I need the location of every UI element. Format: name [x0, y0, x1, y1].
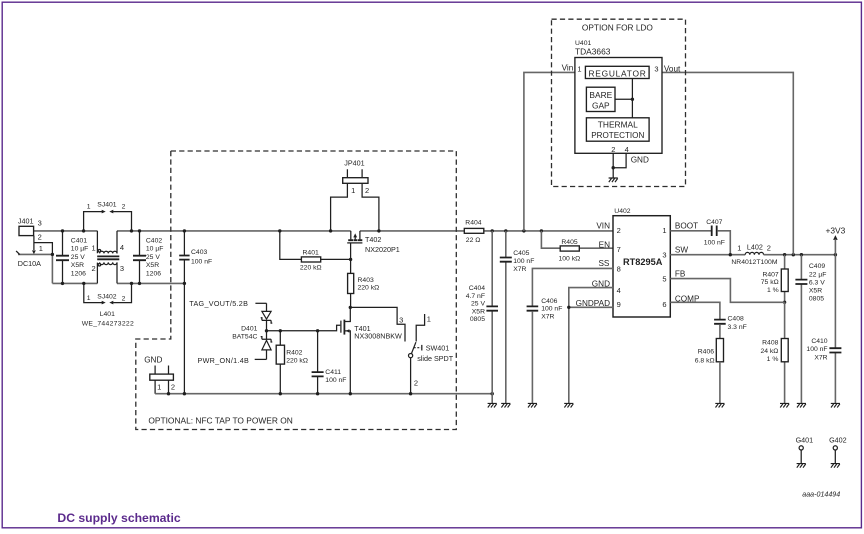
- svg-text:C402: C402: [146, 237, 162, 244]
- svg-text:0805: 0805: [470, 316, 485, 323]
- svg-text:3.3 nF: 3.3 nF: [728, 324, 747, 331]
- svg-text:GND: GND: [631, 155, 649, 164]
- ground G401: [797, 464, 806, 468]
- LDO regulator block: [585, 66, 649, 78]
- wire LDO internal: [615, 79, 634, 118]
- svg-text:T402: T402: [365, 235, 381, 244]
- svg-text:EN: EN: [599, 240, 610, 249]
- capacitor C401: [56, 231, 88, 284]
- svg-text:2: 2: [611, 145, 615, 154]
- svg-text:1: 1: [351, 186, 355, 195]
- svg-text:2: 2: [122, 296, 126, 303]
- svg-text:SJ402: SJ402: [97, 294, 116, 301]
- wire +3V3 output node: [729, 253, 838, 256]
- svg-text:SJ401: SJ401: [97, 202, 116, 209]
- svg-text:2: 2: [767, 243, 771, 252]
- svg-text:5: 5: [662, 275, 666, 284]
- svg-text:C411: C411: [325, 369, 341, 376]
- svg-text:X7R: X7R: [541, 313, 554, 320]
- resistor R402: [276, 331, 308, 394]
- svg-text:SW: SW: [675, 245, 688, 254]
- capacitor C409: [795, 255, 826, 404]
- svg-text:C408: C408: [728, 316, 744, 323]
- svg-text:100 kΩ: 100 kΩ: [559, 255, 581, 262]
- svg-text:R405: R405: [561, 239, 577, 246]
- svg-text:4: 4: [625, 145, 629, 154]
- transistor T401 (N-MOSFET): [341, 306, 402, 394]
- diode D401 dual Schottky: [232, 303, 272, 359]
- svg-text:X5R: X5R: [146, 262, 159, 269]
- svg-text:X7R: X7R: [814, 354, 827, 361]
- ground GNDPAD: [564, 403, 573, 407]
- svg-text:1: 1: [577, 65, 581, 74]
- svg-text:1206: 1206: [71, 270, 86, 277]
- svg-text:R404: R404: [465, 220, 481, 227]
- IC U402 RT8295A: [576, 208, 700, 317]
- svg-text:VIN: VIN: [596, 221, 610, 230]
- capacitor C410: [806, 255, 841, 404]
- optional NFC dashed box: [136, 151, 457, 430]
- svg-text:100 nF: 100 nF: [541, 306, 562, 313]
- svg-text:C401: C401: [71, 237, 87, 244]
- svg-text:8: 8: [617, 265, 621, 274]
- svg-text:Vin: Vin: [562, 64, 574, 73]
- svg-text:TDA3663: TDA3663: [575, 46, 611, 56]
- svg-text:25 V: 25 V: [71, 254, 85, 261]
- svg-text:7: 7: [617, 245, 621, 254]
- svg-text:C406: C406: [541, 298, 557, 305]
- svg-text:REGULATOR: REGULATOR: [588, 68, 646, 78]
- svg-text:RT8295A: RT8295A: [623, 257, 663, 267]
- switch SW401 slide SPDT: [350, 307, 453, 393]
- svg-text:1: 1: [737, 243, 741, 252]
- svg-text:4: 4: [120, 243, 124, 252]
- resistor R405: [541, 231, 613, 263]
- power +3V3: [826, 226, 846, 255]
- svg-text:C404: C404: [469, 285, 485, 292]
- svg-text:9: 9: [617, 300, 621, 309]
- capacitor C404: [466, 231, 498, 404]
- svg-text:3: 3: [654, 65, 658, 74]
- ground C405: [501, 403, 510, 407]
- wire GNDPAD pin: [567, 306, 613, 404]
- svg-text:U402: U402: [614, 208, 630, 215]
- resistor R407: [761, 255, 788, 304]
- svg-text:1 %: 1 %: [767, 287, 779, 294]
- svg-text:TAG_VOUT/5.2B: TAG_VOUT/5.2B: [189, 299, 248, 308]
- ground C404: [488, 403, 497, 407]
- ground C409: [797, 403, 806, 407]
- svg-text:BARE: BARE: [589, 90, 612, 100]
- svg-text:WE_744273222: WE_744273222: [82, 321, 134, 328]
- svg-text:R408: R408: [762, 339, 778, 346]
- IC U401 TDA3663: [575, 40, 662, 153]
- svg-text:3: 3: [120, 264, 124, 273]
- svg-text:1: 1: [662, 226, 666, 235]
- capacitor C407: [704, 219, 731, 255]
- svg-text:2: 2: [617, 226, 621, 235]
- svg-text:3: 3: [38, 219, 42, 228]
- connector J401: [18, 216, 43, 253]
- svg-text:G401: G401: [796, 435, 814, 444]
- net label PWR_ON/1.4B: [198, 356, 267, 365]
- wire VIN rail: [34, 229, 614, 232]
- svg-text:1: 1: [39, 244, 43, 253]
- svg-text:R406: R406: [698, 349, 714, 356]
- svg-text:0805: 0805: [809, 296, 824, 303]
- svg-text:aaa-014494: aaa-014494: [802, 490, 840, 498]
- svg-text:GAP: GAP: [592, 101, 610, 111]
- solder jumper SJ401: [84, 202, 132, 231]
- svg-text:6: 6: [662, 300, 666, 309]
- svg-text:J401: J401: [18, 216, 34, 225]
- svg-text:DC supply schematic: DC supply schematic: [57, 511, 180, 525]
- svg-text:100 nF: 100 nF: [806, 346, 827, 353]
- wire D401 node to T401 gate: [265, 325, 341, 332]
- wire SW pin: [670, 254, 745, 256]
- wire NFC ground rail: [155, 392, 494, 395]
- svg-text:C403: C403: [191, 249, 207, 256]
- capacitor C405: [500, 231, 535, 404]
- capacitor C408: [714, 316, 747, 339]
- svg-text:22 Ω: 22 Ω: [466, 237, 481, 244]
- wire LDO ground pins: [612, 153, 649, 178]
- svg-text:DC10A: DC10A: [18, 259, 41, 268]
- svg-text:PROTECTION: PROTECTION: [591, 131, 644, 140]
- svg-text:OPTION FOR LDO: OPTION FOR LDO: [582, 23, 654, 33]
- svg-text:NX3008NBKW: NX3008NBKW: [354, 332, 402, 341]
- svg-text:X5R: X5R: [809, 288, 822, 295]
- svg-text:X7R: X7R: [513, 266, 526, 273]
- svg-text:1: 1: [157, 382, 161, 391]
- wire FB pin: [670, 279, 784, 303]
- svg-text:X5R: X5R: [71, 262, 84, 269]
- resistor R404: [464, 220, 484, 244]
- svg-text:NX2020P1: NX2020P1: [365, 245, 400, 254]
- svg-text:100 nF: 100 nF: [191, 259, 212, 266]
- ground C406: [528, 403, 537, 407]
- svg-text:Vout: Vout: [664, 65, 681, 74]
- svg-text:25 V: 25 V: [146, 254, 160, 261]
- svg-text:4.7 nF: 4.7 nF: [466, 293, 485, 300]
- svg-text:X5R: X5R: [472, 308, 485, 315]
- svg-text:GNDPAD: GNDPAD: [576, 299, 611, 308]
- svg-text:2: 2: [38, 233, 42, 242]
- svg-text:2: 2: [122, 204, 126, 211]
- svg-text:L401: L401: [100, 311, 115, 318]
- resistor R406: [695, 339, 724, 404]
- svg-text:1206: 1206: [146, 270, 161, 277]
- wire BOOT pin: [670, 230, 711, 232]
- svg-text:2: 2: [171, 382, 175, 391]
- svg-text:C409: C409: [809, 263, 825, 270]
- svg-text:1: 1: [87, 203, 91, 210]
- svg-text:25 V: 25 V: [471, 301, 485, 308]
- wire input return rail: [52, 282, 186, 285]
- capacitor C402: [133, 231, 163, 284]
- test point G402: [829, 435, 847, 463]
- ground U401: [609, 178, 618, 182]
- svg-text:R403: R403: [358, 277, 374, 284]
- svg-text:slide SPDT: slide SPDT: [417, 354, 454, 363]
- svg-text:6.8 kΩ: 6.8 kΩ: [695, 358, 715, 365]
- ground C410: [831, 403, 840, 407]
- svg-text:1 %: 1 %: [767, 356, 779, 363]
- svg-text:6.3 V: 6.3 V: [809, 279, 825, 286]
- capacitor C411: [312, 331, 347, 394]
- svg-text:+3V3: +3V3: [826, 226, 846, 236]
- svg-text:100 nF: 100 nF: [513, 258, 534, 265]
- svg-text:SS: SS: [598, 259, 609, 268]
- svg-text:100 nF: 100 nF: [325, 377, 346, 384]
- svg-text:1: 1: [92, 243, 96, 252]
- common-mode choke L401: [82, 231, 134, 328]
- svg-text:PWR_ON/1.4B: PWR_ON/1.4B: [198, 356, 250, 365]
- svg-text:R401: R401: [303, 249, 319, 256]
- svg-text:1: 1: [87, 295, 91, 302]
- resistor R408: [760, 302, 788, 403]
- svg-text:220 kΩ: 220 kΩ: [286, 357, 308, 364]
- LDO bandgap block: [586, 87, 615, 111]
- resistor R401: [280, 231, 353, 271]
- transistor T402 (P-MOSFET): [347, 231, 400, 260]
- LDO pin labels: [562, 64, 681, 154]
- svg-text:24 kΩ: 24 kΩ: [760, 348, 778, 355]
- svg-text:10 µF: 10 µF: [71, 246, 89, 253]
- svg-text:OPTIONAL: NFC TAP TO POWER ON: OPTIONAL: NFC TAP TO POWER ON: [148, 415, 292, 425]
- svg-text:C410: C410: [811, 338, 827, 345]
- LDO thermal protection block: [586, 118, 649, 141]
- wire DC10A input: [16, 251, 54, 284]
- svg-text:2: 2: [92, 264, 96, 273]
- svg-text:THERMAL: THERMAL: [598, 120, 638, 130]
- capacitor C403: [179, 231, 212, 394]
- svg-text:220 kΩ: 220 kΩ: [300, 264, 322, 271]
- svg-text:22 µF: 22 µF: [809, 271, 827, 278]
- svg-text:R407: R407: [762, 272, 778, 279]
- wire LDO Vout: [649, 72, 793, 254]
- svg-text:NR4012T100M: NR4012T100M: [731, 259, 777, 266]
- ground G402: [831, 464, 840, 468]
- wire SS pin: [532, 268, 613, 306]
- svg-text:100 nF: 100 nF: [704, 239, 725, 246]
- net label TAG_VOUT/5.2B: [189, 299, 266, 308]
- svg-text:75 kΩ: 75 kΩ: [761, 279, 779, 286]
- connector GND: [144, 355, 175, 393]
- svg-text:4: 4: [617, 286, 621, 295]
- svg-text:L402: L402: [747, 243, 763, 252]
- wire LDO Vin: [524, 72, 586, 231]
- LDO option dashed box: [552, 19, 686, 186]
- resistor R403: [348, 259, 380, 307]
- test point G401: [796, 435, 814, 463]
- jumper JP401: [331, 159, 379, 231]
- svg-text:2: 2: [414, 378, 418, 387]
- solder jumper SJ402: [84, 283, 132, 304]
- svg-text:SW401: SW401: [426, 344, 450, 353]
- ground R406: [715, 403, 724, 407]
- svg-text:R402: R402: [286, 349, 302, 356]
- inductor L402: [731, 243, 777, 267]
- capacitor C406: [527, 298, 563, 403]
- svg-text:220 kΩ: 220 kΩ: [358, 284, 380, 291]
- svg-text:JP401: JP401: [344, 159, 364, 168]
- svg-text:3: 3: [662, 251, 666, 260]
- wire J401 pin2 switch bracket: [32, 236, 52, 255]
- svg-text:1: 1: [427, 315, 431, 324]
- svg-text:C407: C407: [706, 219, 722, 226]
- svg-text:BOOT: BOOT: [675, 221, 698, 230]
- svg-text:D401: D401: [241, 325, 257, 332]
- svg-text:10 µF: 10 µF: [146, 246, 164, 253]
- svg-text:GND: GND: [144, 355, 162, 364]
- svg-text:BAT54C: BAT54C: [232, 334, 257, 341]
- wire GND pin: [569, 288, 613, 308]
- svg-text:2: 2: [365, 186, 369, 195]
- svg-text:C405: C405: [513, 250, 529, 257]
- svg-text:3: 3: [399, 316, 403, 325]
- wire COMP pin: [670, 302, 720, 319]
- svg-text:FB: FB: [675, 270, 686, 279]
- ground R408: [780, 403, 789, 407]
- svg-text:G402: G402: [829, 435, 847, 444]
